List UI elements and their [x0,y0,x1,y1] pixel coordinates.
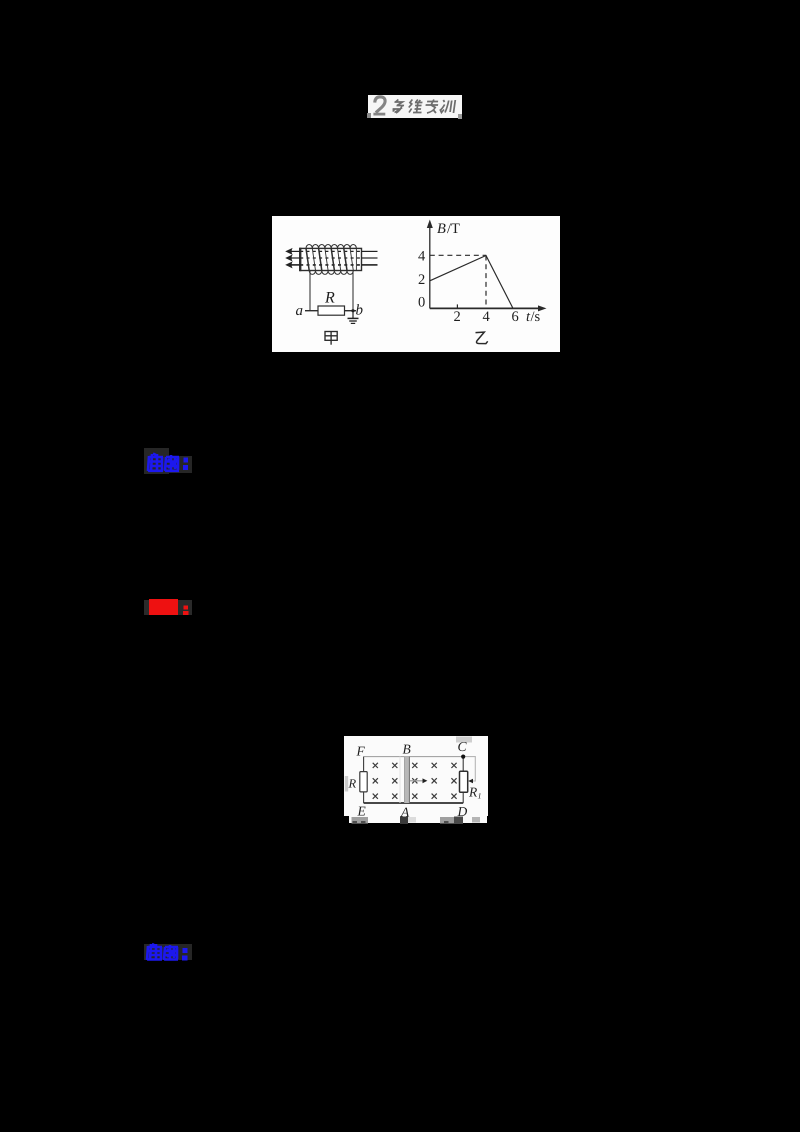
svg-text:b: b [356,303,364,319]
svg-text:0: 0 [418,295,425,311]
svg-text:2: 2 [418,272,425,288]
svg-text:1: 1 [478,792,482,801]
svg-text:C: C [458,739,468,754]
svg-text:R: R [324,290,335,307]
svg-text:4: 4 [418,249,426,265]
svg-text:/s: /s [531,309,541,325]
svg-text:F: F [356,744,366,759]
svg-text:a: a [296,303,304,319]
svg-text:B: B [437,221,446,237]
svg-text:6: 6 [512,309,519,325]
svg-text:R: R [348,777,357,791]
svg-text:4: 4 [483,309,491,325]
svg-text:/T: /T [447,221,460,237]
svg-text:E: E [357,804,367,819]
svg-text:B: B [403,742,411,757]
svg-text:R: R [468,785,478,800]
svg-text:2: 2 [454,309,461,325]
